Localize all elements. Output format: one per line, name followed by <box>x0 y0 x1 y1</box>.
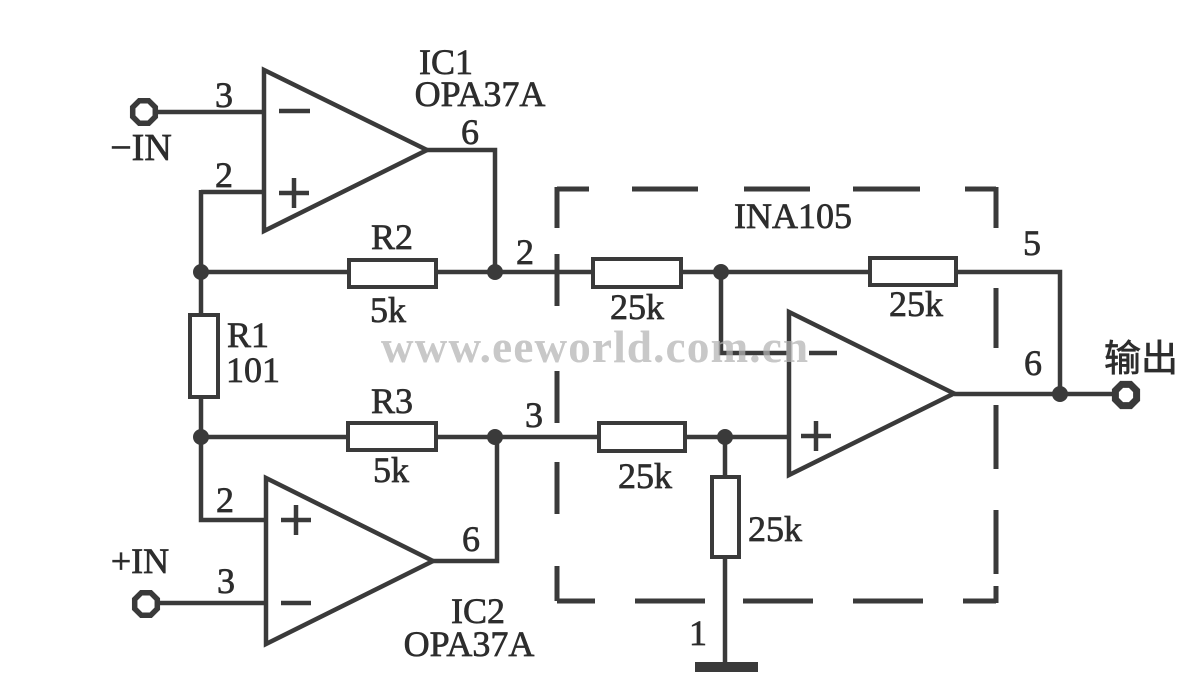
svg-text:3: 3 <box>217 561 235 601</box>
svg-text:−IN: −IN <box>110 127 172 169</box>
svg-text:25k: 25k <box>889 284 943 324</box>
svg-text:3: 3 <box>215 75 233 115</box>
svg-text:6: 6 <box>1024 343 1042 383</box>
svg-text:R2: R2 <box>371 217 413 257</box>
svg-text:5: 5 <box>1023 223 1041 263</box>
svg-text:25k: 25k <box>618 456 672 496</box>
svg-text:INA105: INA105 <box>734 196 852 236</box>
svg-text:R1: R1 <box>227 315 269 355</box>
svg-text:5k: 5k <box>373 450 409 490</box>
svg-text:2: 2 <box>516 232 534 272</box>
svg-text:OPA37A: OPA37A <box>415 74 546 114</box>
svg-text:1: 1 <box>689 613 707 653</box>
svg-text:6: 6 <box>461 112 479 152</box>
svg-text:2: 2 <box>216 480 234 520</box>
svg-text:+IN: +IN <box>111 541 169 581</box>
svg-text:101: 101 <box>226 350 280 390</box>
svg-text:6: 6 <box>462 519 480 559</box>
svg-text:25k: 25k <box>610 287 664 327</box>
svg-text:2: 2 <box>215 155 233 195</box>
svg-text:R3: R3 <box>371 381 413 421</box>
svg-text:3: 3 <box>525 395 543 435</box>
svg-text:输出: 输出 <box>1104 338 1178 380</box>
svg-text:www.eeworld.com.cn: www.eeworld.com.cn <box>381 322 808 372</box>
svg-text:OPA37A: OPA37A <box>404 624 535 664</box>
svg-text:25k: 25k <box>748 509 802 549</box>
